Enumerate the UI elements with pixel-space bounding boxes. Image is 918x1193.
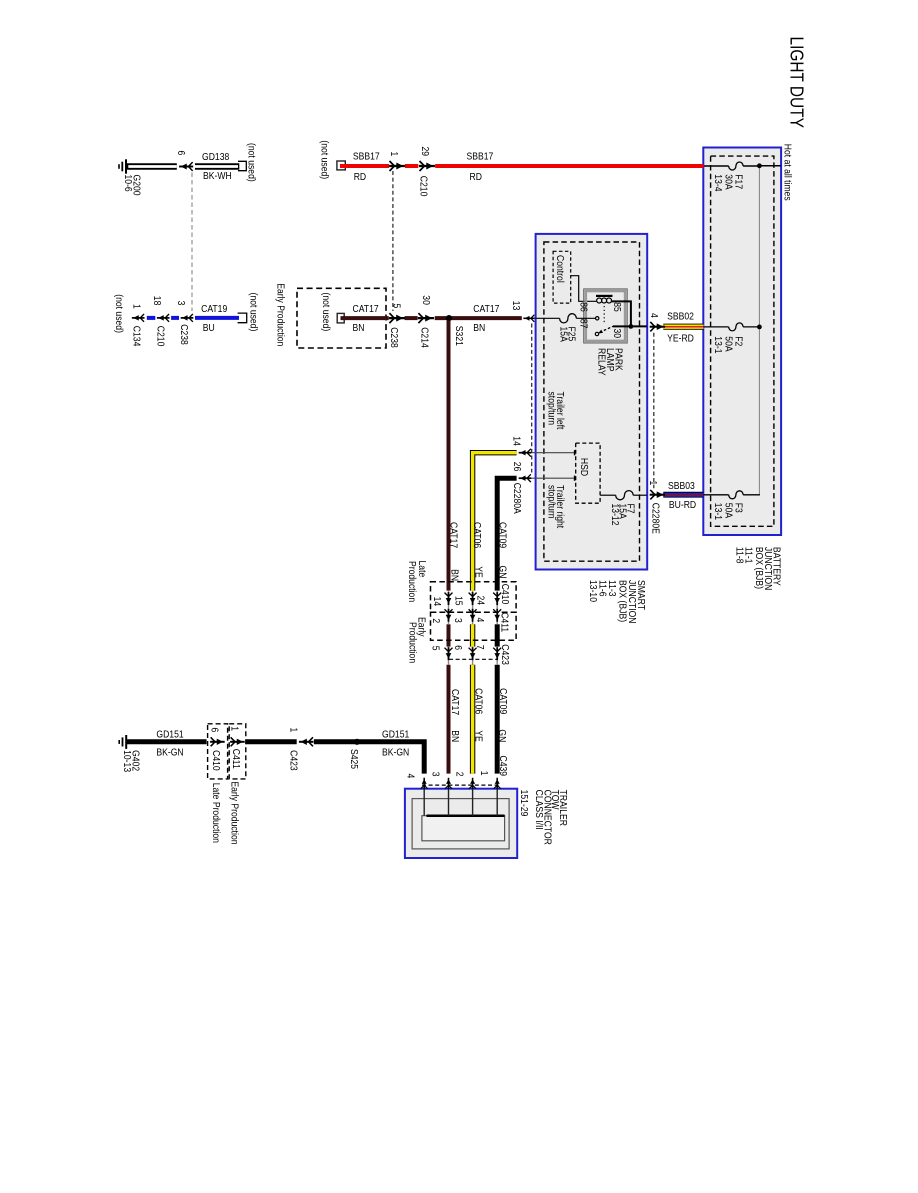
svg-text:Hot at all times: Hot at all times: [781, 144, 793, 201]
svg-text:C2280A: C2280A: [511, 483, 523, 515]
svg-text:SBB17: SBB17: [353, 151, 380, 163]
svg-text:YE: YE: [472, 730, 484, 741]
svg-text:10-6: 10-6: [122, 175, 134, 192]
svg-text:5: 5: [390, 304, 402, 309]
svg-text:85: 85: [611, 302, 623, 312]
svg-text:(not used): (not used): [320, 293, 332, 332]
svg-text:13-10: 13-10: [587, 580, 599, 602]
svg-text:C238: C238: [178, 324, 190, 345]
svg-text:BN: BN: [448, 569, 460, 581]
svg-text:10-13: 10-13: [121, 750, 133, 772]
svg-text:BN: BN: [473, 322, 485, 334]
svg-text:14: 14: [510, 436, 522, 446]
svg-text:13: 13: [510, 301, 522, 311]
svg-text:86: 86: [577, 302, 589, 312]
svg-text:C423: C423: [287, 750, 299, 771]
svg-text:6: 6: [452, 645, 464, 650]
svg-text:RD: RD: [354, 171, 366, 183]
svg-text:HSD: HSD: [578, 458, 590, 476]
svg-text:C423: C423: [499, 644, 511, 665]
svg-text:CAT09: CAT09: [497, 688, 509, 714]
svg-text:11-8: 11-8: [733, 547, 745, 564]
svg-text:6: 6: [208, 728, 220, 733]
svg-text:BK-WH: BK-WH: [203, 170, 232, 182]
svg-text:GD151: GD151: [382, 729, 409, 741]
svg-text:Late Production: Late Production: [210, 783, 222, 843]
svg-text:stop/turn: stop/turn: [545, 485, 557, 518]
svg-text:YE: YE: [472, 566, 484, 577]
svg-text:GD151: GD151: [156, 729, 183, 741]
svg-text:26: 26: [511, 462, 523, 472]
svg-text:7: 7: [474, 645, 486, 650]
svg-text:30: 30: [420, 295, 432, 305]
svg-text:CAT17: CAT17: [449, 689, 461, 715]
svg-text:3: 3: [175, 301, 187, 306]
svg-text:YE-RD: YE-RD: [667, 333, 694, 345]
svg-text:4: 4: [648, 313, 660, 318]
svg-text:GN: GN: [496, 566, 508, 579]
svg-text:CAT17: CAT17: [473, 303, 499, 315]
svg-text:2: 2: [453, 772, 465, 777]
svg-text:C411: C411: [498, 612, 510, 632]
svg-text:Early Production: Early Production: [228, 781, 240, 844]
svg-text:C410: C410: [499, 584, 511, 605]
svg-text:RELAY: RELAY: [595, 348, 607, 376]
svg-text:1: 1: [647, 481, 659, 486]
svg-text:C210: C210: [417, 176, 429, 197]
svg-text:30: 30: [611, 329, 623, 339]
svg-text:1: 1: [287, 728, 299, 733]
svg-text:BN: BN: [449, 730, 461, 742]
svg-text:18: 18: [151, 296, 163, 306]
svg-text:GD138: GD138: [202, 151, 229, 163]
svg-text:1: 1: [228, 726, 240, 731]
svg-text:13-4: 13-4: [712, 174, 724, 192]
svg-text:87: 87: [577, 319, 589, 329]
svg-text:Early Production: Early Production: [274, 283, 286, 346]
svg-text:4: 4: [474, 618, 486, 623]
svg-text:CAT06: CAT06: [471, 522, 483, 548]
svg-text:1: 1: [388, 152, 400, 157]
svg-text:(not used): (not used): [318, 140, 330, 179]
svg-text:15: 15: [452, 596, 464, 606]
svg-text:SBB17: SBB17: [467, 151, 494, 163]
svg-text:13-1: 13-1: [712, 336, 724, 353]
svg-text:LIGHT DUTY: LIGHT DUTY: [786, 37, 808, 129]
svg-text:1: 1: [130, 304, 142, 309]
svg-text:(not used): (not used): [245, 143, 257, 182]
svg-text:Control: Control: [554, 255, 566, 283]
svg-text:CAT17: CAT17: [353, 303, 379, 315]
svg-text:BK-GN: BK-GN: [156, 747, 183, 759]
svg-text:S321: S321: [453, 326, 465, 346]
svg-text:151-29: 151-29: [518, 790, 530, 817]
svg-text:CAT09: CAT09: [496, 522, 508, 548]
svg-text:24: 24: [474, 596, 486, 606]
svg-text:C439: C439: [497, 756, 509, 777]
svg-text:C2280E: C2280E: [649, 503, 661, 534]
svg-text:BN: BN: [353, 322, 365, 334]
svg-text:C411: C411: [230, 749, 242, 769]
svg-text:SBB03: SBB03: [668, 480, 695, 492]
svg-text:15A: 15A: [557, 327, 569, 343]
svg-text:13-1: 13-1: [712, 503, 724, 520]
svg-text:BU: BU: [203, 322, 215, 334]
svg-text:C210: C210: [154, 326, 166, 347]
svg-text:stop/turn: stop/turn: [545, 392, 557, 425]
svg-text:14: 14: [431, 597, 443, 607]
svg-text:6: 6: [175, 151, 187, 156]
svg-text:4: 4: [404, 774, 416, 779]
svg-text:C410: C410: [210, 750, 222, 771]
svg-text:3: 3: [429, 772, 441, 777]
svg-text:CAT17: CAT17: [447, 522, 459, 548]
svg-text:RD: RD: [470, 171, 482, 183]
svg-text:3: 3: [452, 618, 464, 623]
svg-text:(not used): (not used): [113, 294, 125, 333]
svg-text:BK-GN: BK-GN: [382, 747, 409, 759]
svg-text:Production: Production: [406, 561, 418, 602]
svg-text:(not used): (not used): [247, 293, 259, 332]
svg-text:S425: S425: [348, 749, 360, 769]
svg-text:C214: C214: [418, 327, 430, 348]
svg-text:C238: C238: [388, 327, 400, 348]
svg-text:CLASS I/II: CLASS I/II: [533, 790, 545, 830]
svg-text:CAT19: CAT19: [201, 303, 227, 315]
svg-text:CAT06: CAT06: [472, 688, 484, 714]
svg-text:5: 5: [429, 646, 441, 651]
svg-text:2: 2: [430, 618, 442, 623]
svg-text:Production: Production: [406, 622, 418, 663]
svg-text:29: 29: [419, 147, 431, 157]
svg-text:1: 1: [478, 771, 490, 776]
svg-text:BU-RD: BU-RD: [669, 499, 696, 511]
svg-text:SBB02: SBB02: [667, 311, 694, 323]
svg-text:GN: GN: [496, 729, 508, 742]
svg-text:13-12: 13-12: [609, 504, 621, 526]
svg-text:C134: C134: [130, 326, 142, 347]
